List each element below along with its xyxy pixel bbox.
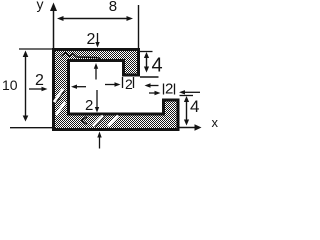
- dim 4 (step height, upper right): [140, 52, 163, 77]
- dim 4 (lip height, lower right): [180, 96, 200, 126]
- svg-text:4: 4: [190, 97, 199, 116]
- svg-text:4: 4: [152, 55, 163, 77]
- svg-text:10: 10: [2, 77, 18, 93]
- svg-text:2: 2: [165, 81, 173, 98]
- hatch streak marks: top flange zigzag: [61, 53, 101, 59]
- dim 2 (left wall thickness): [29, 72, 86, 91]
- dim 8 (top): [57, 0, 139, 50]
- dim 10 (left): [2, 49, 52, 122]
- svg-text:x: x: [212, 115, 219, 130]
- svg-text:y: y: [37, 0, 44, 12]
- svg-text:2: 2: [85, 97, 93, 114]
- dim 2 (step width, middle): [105, 76, 159, 92]
- svg-text:2: 2: [125, 76, 133, 92]
- svg-text:2: 2: [35, 72, 44, 89]
- svg-text:8: 8: [109, 0, 117, 15]
- hatch streak marks: left wall white slashes: [54, 89, 63, 102]
- svg-text:2: 2: [87, 31, 96, 48]
- x axis: [10, 115, 219, 131]
- y axis: [37, 0, 58, 50]
- dim 2 (bottom flange thickness): [85, 90, 102, 149]
- dim 2 (top flange thickness): [87, 31, 100, 80]
- section body (channel with step and lip), dither fill, 3px border: [54, 50, 179, 130]
- hatch streak marks: bottom flange: [82, 117, 88, 125]
- dim 2 (lip width, right): [149, 81, 200, 98]
